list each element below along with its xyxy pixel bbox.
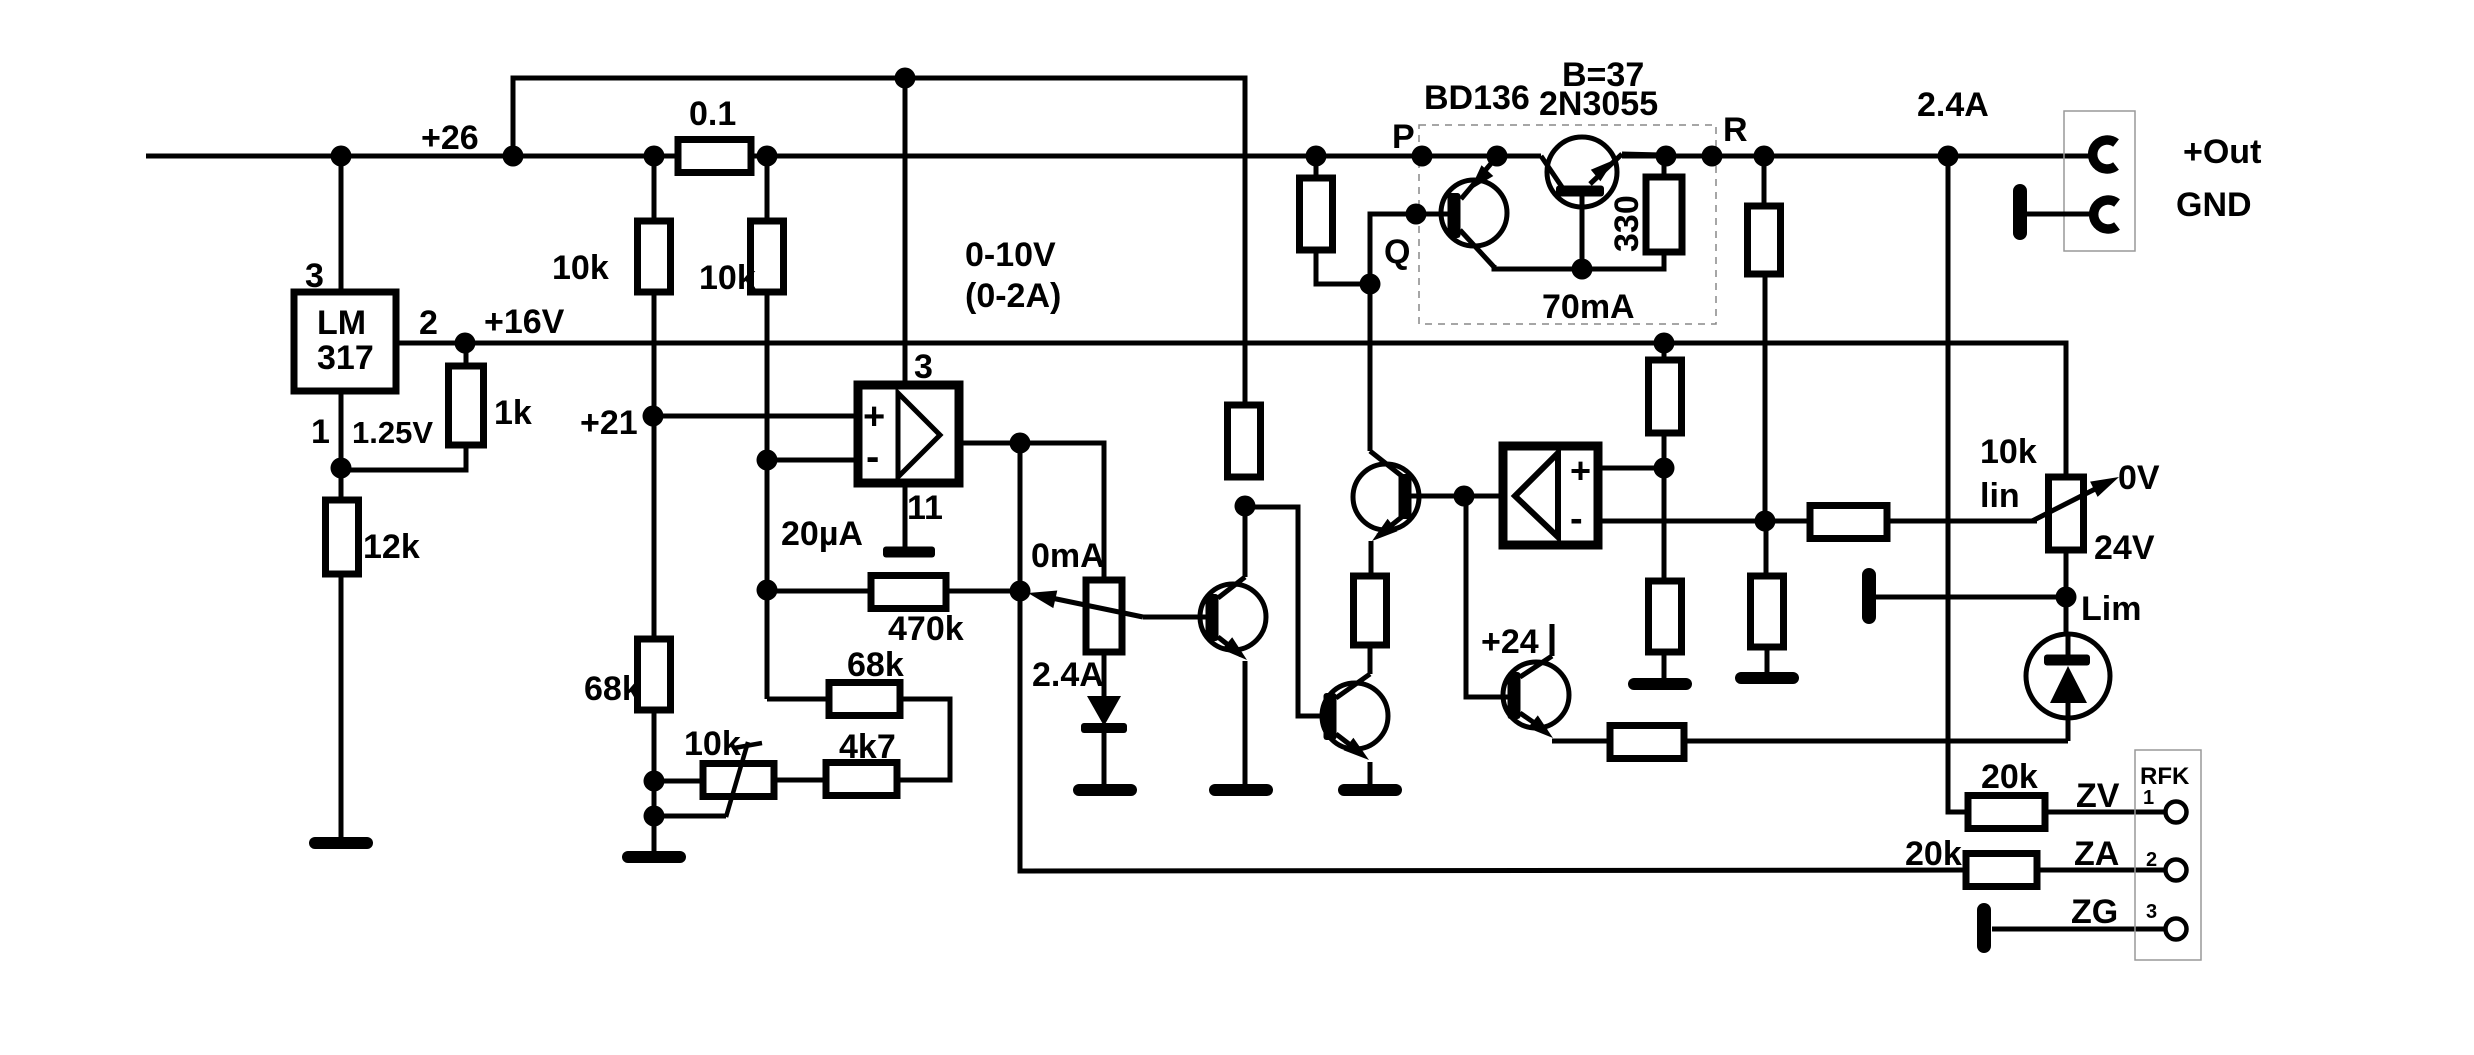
label RFK — [2140, 763, 2190, 790]
resistor 68k horizontal — [767, 683, 900, 716]
node +21 — [643, 406, 664, 427]
svg-text:+21: +21 — [580, 404, 638, 442]
svg-text:1.25V: 1.25V — [352, 415, 433, 450]
wire 70mA bus — [1494, 252, 1664, 269]
svg-text:ZA: ZA — [2074, 835, 2119, 873]
node P — [1412, 146, 1433, 167]
common tick ZG — [1977, 910, 1991, 946]
pin 2 label LM317 — [419, 304, 438, 342]
node opamp inverting tap — [757, 450, 778, 471]
negative supply bar pin11 — [883, 547, 935, 558]
svg-text:1: 1 — [311, 413, 330, 451]
diode 2.4A limit — [1081, 652, 1127, 786]
svg-text:GND: GND — [2176, 186, 2252, 224]
svg-text:0mA: 0mA — [1031, 537, 1105, 575]
node pin3 on +26 rail — [331, 146, 352, 167]
svg-text:70mA: 70mA — [1542, 288, 1635, 326]
wire current set bus down — [1020, 591, 1966, 871]
resistor minus-to-wiper — [1810, 506, 1887, 539]
regulator U1 LM317 — [294, 292, 396, 391]
svg-text:2: 2 — [419, 304, 438, 342]
pin 3 label op-amp U2A — [914, 348, 933, 386]
svg-text:2N3055: 2N3055 — [1539, 85, 1658, 123]
terminal RFK 2 — [2166, 860, 2187, 881]
node op-amp2 output — [1454, 486, 1475, 507]
label R — [1723, 111, 1748, 149]
wire Q link — [1316, 250, 1370, 284]
transistor T3 — [1353, 451, 1419, 576]
wire T4 node to T5 base — [1245, 507, 1324, 716]
wire T6 emitter row — [1552, 739, 1610, 744]
wire ZA — [2037, 868, 2165, 873]
node +26/top wire — [503, 146, 524, 167]
wire 10k divider B drop — [765, 156, 770, 221]
wire pot to Lim — [2064, 550, 2069, 634]
resistor 12k — [326, 500, 359, 574]
label 20k ZV — [1981, 758, 2038, 796]
zener TL431 — [2026, 634, 2110, 741]
resistor 10k A — [638, 221, 671, 292]
node BD136 base entry — [1406, 204, 1427, 225]
resistor +16 chain top — [1649, 343, 1682, 433]
wire Q to T3 collector — [1368, 284, 1373, 451]
wire 2N3055 base down — [1580, 196, 1585, 269]
label P — [1392, 118, 1415, 156]
pin 1 label LM317 — [311, 413, 330, 451]
wire op-amp U2A + input — [653, 414, 857, 419]
svg-text:20µA: 20µA — [781, 515, 863, 553]
svg-text:470k: 470k — [888, 610, 964, 648]
wire output down to 470k node — [1018, 443, 1023, 591]
transistor T4 — [1200, 506, 1266, 786]
svg-text:0-10V: 0-10V — [965, 236, 1056, 274]
label +Out — [2183, 133, 2261, 171]
resistor 20k ZV — [1968, 796, 2045, 829]
resistor R-chain top — [1748, 156, 1781, 274]
label +26 — [421, 119, 479, 157]
wiper arrow 0mA — [1028, 591, 1206, 618]
label B=37 — [1562, 56, 1644, 94]
resistor 0.1 shunt — [678, 140, 751, 173]
svg-text:0.1: 0.1 — [689, 95, 736, 133]
wiper arrow 10k lin — [2032, 477, 2119, 521]
resistor 10k B — [751, 221, 784, 292]
svg-text:10k: 10k — [684, 725, 741, 763]
ground under T5 — [1344, 784, 1396, 796]
terminal +Out — [2093, 140, 2116, 169]
dashed module box — [1419, 125, 1716, 324]
wire 10k divider A drop — [652, 156, 657, 221]
pin 3 label LM317 — [305, 257, 324, 295]
svg-text:P: P — [1392, 118, 1415, 156]
label 10k trim — [684, 725, 741, 763]
svg-text:R: R — [1723, 111, 1748, 149]
wire op-amp U2A output — [960, 443, 1104, 580]
node P-Q resistor top — [1306, 146, 1327, 167]
svg-text:Q: Q — [1384, 233, 1410, 271]
svg-text:LM: LM — [317, 304, 366, 342]
wire +16V rail — [396, 343, 2066, 477]
node 330 top — [1656, 146, 1677, 167]
label 10k A — [552, 249, 609, 287]
label +16V — [484, 303, 565, 341]
label 10k B — [699, 259, 756, 297]
label GND — [2176, 186, 2252, 224]
label BD136 — [1424, 79, 1530, 117]
wire op-amp U2A V+ pin3 — [903, 78, 908, 384]
svg-text:10k: 10k — [552, 249, 609, 287]
wire GND link — [2027, 212, 2093, 217]
wire 10k B down chain — [765, 292, 770, 699]
terminal RFK 3 — [2166, 919, 2187, 940]
svg-text:330: 330 — [1608, 195, 1646, 252]
resistor +16 chain bottom — [1649, 581, 1682, 652]
label 0.1 — [689, 95, 736, 133]
label 1k — [494, 394, 532, 432]
svg-text:2: 2 — [2146, 849, 2157, 871]
svg-text:68k: 68k — [847, 646, 904, 684]
svg-text:20k: 20k — [1981, 758, 2038, 796]
svg-text:68k: 68k — [584, 670, 641, 708]
node T4 collector — [1235, 496, 1256, 517]
op-amp U2A — [858, 385, 959, 483]
wire +26 rail right segment — [1622, 154, 2093, 159]
label 68k vertical — [584, 670, 641, 708]
node shunt left — [644, 146, 665, 167]
svg-text:20k: 20k — [1905, 835, 1962, 873]
node 2.4A — [1938, 146, 1959, 167]
wire pot wiper link — [654, 814, 726, 819]
svg-text:10k: 10k — [699, 259, 756, 297]
label ZV — [2076, 777, 2120, 815]
label (0-2A) — [965, 277, 1061, 315]
node R — [1702, 146, 1723, 167]
node comparator minus — [1755, 511, 1776, 532]
wire 10k A to 68k — [652, 292, 657, 639]
wire ZG — [1992, 927, 2165, 932]
node Lim — [2056, 587, 2077, 608]
wire op-amp U2A - input — [767, 458, 857, 463]
wire comparator - input — [1598, 519, 1810, 524]
svg-text:+Out: +Out — [2183, 133, 2261, 171]
RFK connector box — [2135, 750, 2201, 960]
svg-text:3: 3 — [914, 348, 933, 386]
resistor 470k — [767, 576, 1020, 609]
transistor Q2 2N3055 — [1541, 137, 1664, 207]
node shunt right — [757, 146, 778, 167]
svg-text:1: 1 — [2143, 787, 2154, 809]
label +21 — [580, 404, 638, 442]
potentiometer 10k trim — [654, 742, 774, 817]
wire top feedback from +26 to divider resistor — [513, 78, 1245, 405]
node R-chain top — [1754, 146, 1775, 167]
ground under diode — [1079, 784, 1131, 796]
node Q — [1360, 274, 1381, 295]
label 470k — [888, 610, 964, 648]
resistor 20k ZA — [1966, 854, 2037, 887]
node pin1 junction — [331, 458, 352, 479]
label 330 — [1608, 195, 1646, 252]
label 1.25V — [352, 415, 433, 450]
svg-text:RFK: RFK — [2140, 763, 2190, 790]
svg-text:11: 11 — [907, 489, 943, 527]
svg-text:BD136: BD136 — [1424, 79, 1530, 117]
svg-text:3: 3 — [305, 257, 324, 295]
wire +26 rail left segment — [146, 154, 1541, 159]
wire Lim to tick — [1876, 595, 2066, 600]
label 4k7 — [839, 728, 896, 766]
node pin3 top wire — [895, 68, 916, 89]
output connector box — [2064, 111, 2135, 251]
label 12k — [363, 528, 420, 566]
label Lim — [2081, 590, 2141, 628]
op-amp U2B comparator — [1503, 446, 1598, 545]
svg-text:+24: +24 — [1481, 623, 1539, 661]
resistor T3 emitter — [1354, 576, 1387, 645]
pin 2 label RFK — [2146, 849, 2157, 871]
svg-text:2.4A: 2.4A — [1032, 656, 1104, 694]
label 20k ZA — [1905, 835, 1962, 873]
label 68k horizontal — [847, 646, 904, 684]
wire T3 base — [1411, 494, 1502, 499]
svg-text:24V: 24V — [2094, 529, 2155, 567]
svg-text:-: - — [1570, 498, 1583, 540]
label 0-10V — [965, 236, 1056, 274]
terminal RFK 1 — [2166, 802, 2187, 823]
svg-text:+16V: +16V — [484, 303, 565, 341]
wire BD136 base — [1370, 214, 1448, 284]
resistor T6 emitter — [1610, 726, 1684, 759]
resistor 330 — [1646, 156, 1682, 252]
svg-text:+: + — [1570, 450, 1591, 491]
wire LM317 pin3 — [339, 156, 344, 292]
svg-text:(0-2A): (0-2A) — [965, 277, 1061, 315]
potentiometer 10k lin — [2049, 477, 2084, 550]
svg-text:lin: lin — [1980, 477, 2020, 515]
terminal GND — [2094, 200, 2117, 229]
common tick Lim — [1862, 575, 1876, 617]
wire ZV — [2045, 810, 2165, 815]
wire chain below minus — [1764, 521, 1769, 576]
pin 1 label RFK — [2143, 787, 2154, 809]
node 470k left — [757, 580, 778, 601]
label 0mA — [1031, 537, 1105, 575]
label 10k lin b — [1980, 477, 2020, 515]
label ZG — [2071, 893, 2118, 931]
ground under 12k — [315, 837, 367, 849]
transistor Q1 BD136 — [1441, 160, 1507, 267]
label 0V — [2118, 459, 2160, 497]
resistor P-Q — [1300, 156, 1333, 250]
node 1k top on +16V — [455, 333, 476, 354]
label 2.4A out — [1917, 86, 1989, 124]
label 2.4A set — [1032, 656, 1104, 694]
wire comparator + input — [1598, 466, 1664, 471]
node +16 tap — [1654, 333, 1675, 354]
wire +16 chain mid — [1662, 433, 1667, 581]
wire LM317 pin1 to ground — [339, 391, 344, 839]
label 70mA — [1542, 288, 1635, 326]
label ZA — [2074, 835, 2119, 873]
wire emitter row to zener — [1684, 739, 2068, 744]
label 24V — [2094, 529, 2155, 567]
svg-text:317: 317 — [317, 339, 374, 377]
resistor above T4 — [1228, 405, 1261, 477]
label +24 — [1481, 623, 1539, 661]
pin 3 label RFK — [2146, 901, 2157, 923]
wire 68k to ground — [652, 710, 657, 853]
svg-text:4k7: 4k7 — [839, 728, 896, 766]
node 2N3055 base — [1572, 259, 1593, 280]
svg-text:10k: 10k — [1980, 433, 2037, 471]
wire 68k/4k7 joint — [897, 699, 950, 780]
common tick GND — [2013, 191, 2027, 233]
label 10k lin a — [1980, 433, 2037, 471]
wire 2.4A sense down — [1948, 156, 1968, 812]
wire comparator output to bases — [1466, 496, 1508, 697]
wire R-chain down — [1763, 274, 1768, 521]
label Q — [1384, 233, 1410, 271]
resistor 4k7 — [774, 763, 897, 796]
node pot wiper tap — [644, 806, 665, 827]
wire to pot wiper — [1887, 519, 2037, 524]
svg-text:3: 3 — [2146, 901, 2157, 923]
ground under 68k chain — [628, 851, 680, 863]
svg-text:0V: 0V — [2118, 459, 2160, 497]
svg-text:+26: +26 — [421, 119, 479, 157]
label 20uA — [781, 515, 863, 553]
label 2N3055 — [1539, 85, 1658, 123]
potentiometer 0mA set — [1086, 580, 1122, 652]
transistor T5 — [1322, 645, 1388, 786]
svg-text:Lim: Lim — [2081, 590, 2141, 628]
svg-text:1k: 1k — [494, 394, 532, 432]
svg-text:+: + — [863, 396, 885, 438]
svg-text:12k: 12k — [363, 528, 420, 566]
node pot top tap — [644, 771, 665, 792]
ground under +16 chain — [1634, 652, 1686, 684]
svg-text:ZG: ZG — [2071, 893, 2118, 931]
node comparator plus — [1654, 458, 1675, 479]
resistor 68k vertical — [638, 639, 671, 710]
svg-text:ZV: ZV — [2076, 777, 2120, 815]
resistor R-chain bottom — [1751, 576, 1784, 647]
resistor 1k — [449, 343, 484, 445]
transistor T6 — [1503, 624, 1569, 738]
node op-amp output — [1010, 433, 1031, 454]
svg-text:-: - — [866, 435, 879, 479]
ground under T4 — [1215, 784, 1267, 796]
node BD136 emitter on rail — [1487, 146, 1508, 167]
wire 1.25V feedback — [341, 445, 466, 470]
svg-text:2.4A: 2.4A — [1917, 86, 1989, 124]
node 470k right — [1010, 581, 1031, 602]
ground under R-chain — [1741, 647, 1793, 678]
pin 11 label op-amp U2A — [907, 489, 943, 527]
wire op-amp U2A pin11 — [903, 484, 908, 548]
